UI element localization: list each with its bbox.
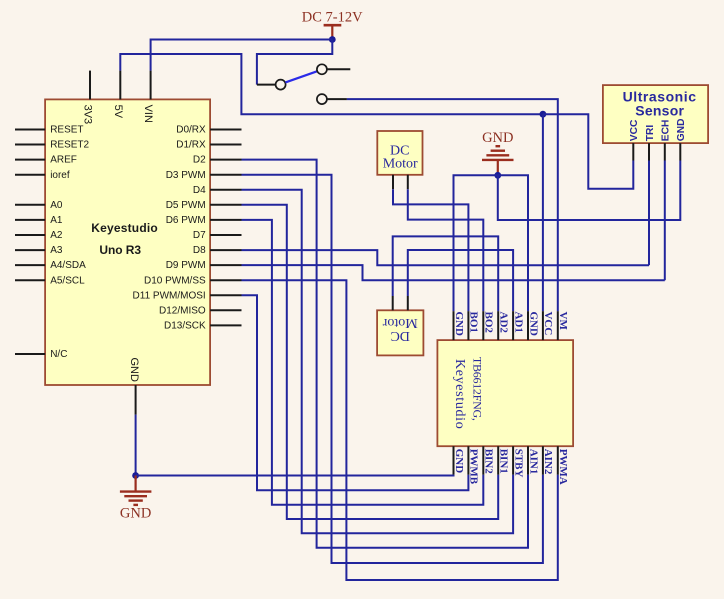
U1 pin VIN lead (150, 71, 152, 100)
svg-text:A5/SCL: A5/SCL (50, 275, 85, 286)
svg-text:A3: A3 (50, 245, 63, 256)
wire GND to sensor GND (498, 161, 681, 221)
svg-text:A1: A1 (50, 215, 63, 226)
svg-text:Uno R3: Uno R3 (99, 243, 141, 257)
node: 5V / VCC junction (540, 111, 547, 118)
svg-text:D10 PWM/SS: D10 PWM/SS (144, 275, 206, 286)
wire D6 to TB6612 BIN2 (242, 220, 484, 505)
svg-text:Motor: Motor (383, 156, 418, 171)
wire M2 pin 1 to TB6612 AD2 (393, 236, 499, 311)
TB6612 top pin leads (454, 311, 558, 340)
wire 5V rail (120, 54, 543, 114)
wire sensor ECH down (664, 161, 666, 281)
U1 right pin leads (210, 130, 241, 326)
wire M1 pin 2 to TB6612 BO2 (408, 189, 484, 311)
svg-text:D13/SCK: D13/SCK (164, 321, 206, 332)
svg-text:RESET2: RESET2 (50, 140, 89, 151)
svg-text:PWMA: PWMA (557, 449, 569, 485)
svg-text:5V: 5V (112, 105, 124, 119)
switch S1 throw 2 lead (327, 98, 347, 100)
svg-text:BO2: BO2 (483, 312, 495, 334)
wire U1 GND down (135, 415, 137, 476)
sensor U3 Ultrasonic Sensor (603, 85, 708, 143)
svg-text:BO1: BO1 (468, 312, 480, 333)
svg-text:GND: GND (128, 358, 140, 383)
svg-text:Sensor: Sensor (635, 103, 684, 119)
svg-text:GND: GND (453, 312, 465, 337)
wire M1 pin 1 to TB6612 BO1 (393, 189, 468, 311)
node: power junction (329, 36, 336, 43)
wire D2 to TB6612 AIN1 (242, 160, 529, 548)
svg-text:VIN: VIN (142, 105, 154, 123)
svg-text:AD2: AD2 (498, 312, 510, 334)
wire GND to TB6612 GND pin 6 (498, 175, 528, 311)
svg-text:VCC: VCC (542, 312, 554, 336)
power symbol DC 7-12V (302, 10, 363, 40)
switch S1 pole lead (257, 84, 276, 86)
wire D3 to TB6612 AIN2 (242, 175, 543, 563)
svg-text:GND: GND (453, 449, 465, 474)
svg-text:GND: GND (482, 130, 513, 146)
svg-text:VM: VM (557, 312, 569, 331)
svg-text:STBY: STBY (512, 449, 524, 478)
svg-text:D7: D7 (193, 230, 206, 241)
wire VIN to power junction (151, 40, 333, 71)
wire VCC junction to sensor VCC (543, 114, 633, 189)
svg-text:D12/MISO: D12/MISO (159, 305, 206, 316)
node: board GND junction (132, 472, 139, 479)
svg-text:D8: D8 (193, 245, 206, 256)
svg-text:TRI: TRI (645, 125, 656, 142)
TB6612 bottom pin labels (453, 449, 569, 485)
wire M2 pin 2 to TB6612 AD1 (408, 250, 513, 311)
sensor pin leads (633, 143, 680, 160)
svg-text:D1/RX: D1/RX (176, 140, 206, 151)
U1 left pin leads (15, 130, 45, 355)
switch S1 throw 2 contact (317, 94, 327, 104)
mcu board U1 Keyestudio Uno R3 (45, 99, 210, 385)
svg-text:VCC: VCC (629, 119, 640, 141)
svg-text:GND: GND (527, 312, 539, 337)
M2 pin leads (393, 296, 408, 310)
svg-text:GND: GND (676, 119, 687, 142)
U1 pin 3V3 lead (89, 71, 91, 100)
TB6612 top pin labels (453, 312, 569, 337)
svg-text:BIN1: BIN1 (498, 449, 510, 474)
motor M1 DC Motor (377, 131, 422, 175)
wire switch to TB6612 VM (347, 99, 558, 311)
wire D11 to TB6612 PWMB (242, 295, 469, 490)
wire GND to TB6612 GND pin 1 (454, 175, 498, 311)
driver U2 Keyestudio TB6612FNG (437, 340, 573, 446)
node: GND junction (494, 172, 501, 179)
svg-text:GND: GND (120, 506, 151, 522)
svg-text:A4/SDA: A4/SDA (50, 260, 86, 271)
wire D9 to sensor ECH (242, 265, 665, 280)
svg-text:N/C: N/C (50, 349, 67, 360)
svg-text:ECH: ECH (661, 120, 672, 142)
svg-text:A0: A0 (50, 200, 63, 211)
svg-text:AIN1: AIN1 (527, 449, 539, 475)
M1 pin leads (393, 175, 408, 189)
svg-text:Keyestudio: Keyestudio (91, 221, 158, 235)
wire D4 to TB6612 STBY (242, 190, 514, 534)
svg-text:Motor: Motor (382, 315, 417, 330)
wire power junction to switch pole (257, 40, 332, 85)
svg-text:TB6612FNG,: TB6612FNG, (470, 357, 484, 421)
motor M2 DC Motor (rotated) (377, 310, 423, 355)
wire sensor TRI down (648, 161, 650, 266)
svg-text:AD1: AD1 (512, 312, 524, 333)
ground symbol near DC motor (482, 130, 514, 175)
svg-text:AREF: AREF (50, 155, 77, 166)
svg-text:DC 7-12V: DC 7-12V (302, 10, 363, 26)
svg-text:D3 PWM: D3 PWM (166, 170, 206, 181)
switch S1 throw 1 lead (327, 68, 350, 70)
switch S1 lever (285, 71, 317, 82)
svg-text:D5 PWM: D5 PWM (166, 200, 206, 211)
svg-text:D11 PWM/MOSI: D11 PWM/MOSI (133, 290, 206, 301)
wire board GND to TB6612 GND pin 9 (136, 474, 454, 477)
svg-text:AIN2: AIN2 (542, 449, 554, 475)
U1 pin 5V lead (119, 71, 121, 100)
svg-text:Keyestudio: Keyestudio (452, 359, 467, 429)
svg-text:3V3: 3V3 (82, 105, 94, 125)
switch S1 throw 1 contact (317, 64, 327, 74)
svg-text:ioref: ioref (50, 170, 70, 181)
svg-text:D9 PWM: D9 PWM (166, 260, 206, 271)
svg-text:PWMB: PWMB (468, 449, 480, 485)
svg-text:RESET: RESET (50, 125, 83, 136)
svg-text:D0/RX: D0/RX (176, 125, 206, 136)
wire D8 to sensor TRI (242, 250, 650, 265)
svg-text:D6 PWM: D6 PWM (166, 215, 206, 226)
U1 pin GND lead (135, 385, 137, 415)
TB6612 bottom pin leads (454, 446, 558, 475)
svg-text:D2: D2 (193, 155, 206, 166)
svg-text:D4: D4 (193, 185, 206, 196)
wire VCC junction to TB6612 VCC (542, 114, 544, 311)
wire D10 to TB6612 PWMA (242, 280, 558, 580)
svg-text:BIN2: BIN2 (483, 449, 495, 475)
switch S1 pole contact (276, 80, 286, 90)
wire D5 to TB6612 BIN1 (242, 205, 499, 519)
ground symbol below board (120, 476, 152, 522)
svg-text:A2: A2 (50, 230, 63, 241)
